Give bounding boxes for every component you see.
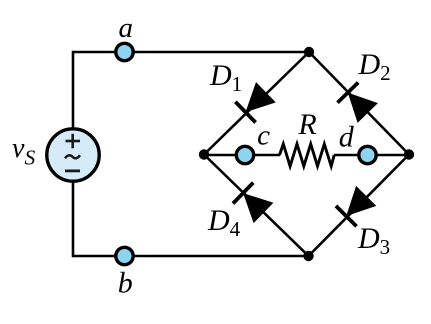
- wire: left vertical lower (source bottom to corner): [72, 181, 75, 257]
- svg-text:D2: D2: [358, 48, 391, 85]
- node d: [359, 146, 376, 163]
- diode D2 cathode bar: [338, 83, 359, 103]
- wire: bridge top-right edge: [309, 52, 409, 155]
- diode D3 triangle (on bottom-right edge, pointing to bottom vertex): [346, 186, 376, 216]
- svg-text:b: b: [118, 266, 133, 299]
- svg-text:d: d: [339, 120, 355, 153]
- resistor R: [280, 144, 335, 166]
- junction dot: bridge bottom vertex: [303, 251, 313, 261]
- diode D4 triangle (on bottom-left edge, pointing to left vertex): [243, 193, 273, 223]
- node a: [116, 43, 133, 60]
- diode D3 cathode bar: [336, 206, 357, 226]
- source tilde: [65, 155, 80, 158]
- svg-text:c: c: [257, 120, 270, 152]
- source vS: [47, 129, 99, 181]
- junction dot: bridge top vertex: [304, 47, 314, 57]
- source plus sign: [66, 140, 81, 143]
- diode D4 cathode bar: [233, 183, 253, 204]
- svg-text:D4: D4: [207, 204, 241, 241]
- node b: [116, 247, 133, 264]
- wire: bottom horizontal from corner to bridge bottom: [73, 255, 309, 258]
- svg-text:a: a: [118, 12, 133, 44]
- wire: left vertical upper (corner to source top): [72, 51, 75, 129]
- junction dot: bridge right vertex: [404, 149, 414, 159]
- wire: middle horizontal (left vertex to resistor, resistor to right vertex): [204, 154, 280, 157]
- diode D1 cathode bar: [235, 102, 255, 123]
- wire: top horizontal from source branch to bridge top: [73, 51, 309, 54]
- source minus sign: [65, 169, 80, 172]
- wire: bridge bottom-right edge: [309, 155, 410, 257]
- svg-text:vS: vS: [12, 133, 35, 170]
- svg-text:D3: D3: [357, 222, 390, 259]
- diode D2 triangle (on top-right edge, pointing to top vertex): [348, 93, 378, 123]
- svg-text:R: R: [297, 108, 316, 141]
- junction dot: bridge left vertex: [199, 149, 209, 159]
- wire: bridge top-left edge: [204, 52, 309, 155]
- node c: [236, 146, 253, 163]
- diode D1 triangle (on top-left edge, pointing to left vertex): [246, 82, 276, 112]
- wire: bridge bottom-left edge: [204, 155, 309, 257]
- svg-text:D1: D1: [209, 59, 242, 96]
